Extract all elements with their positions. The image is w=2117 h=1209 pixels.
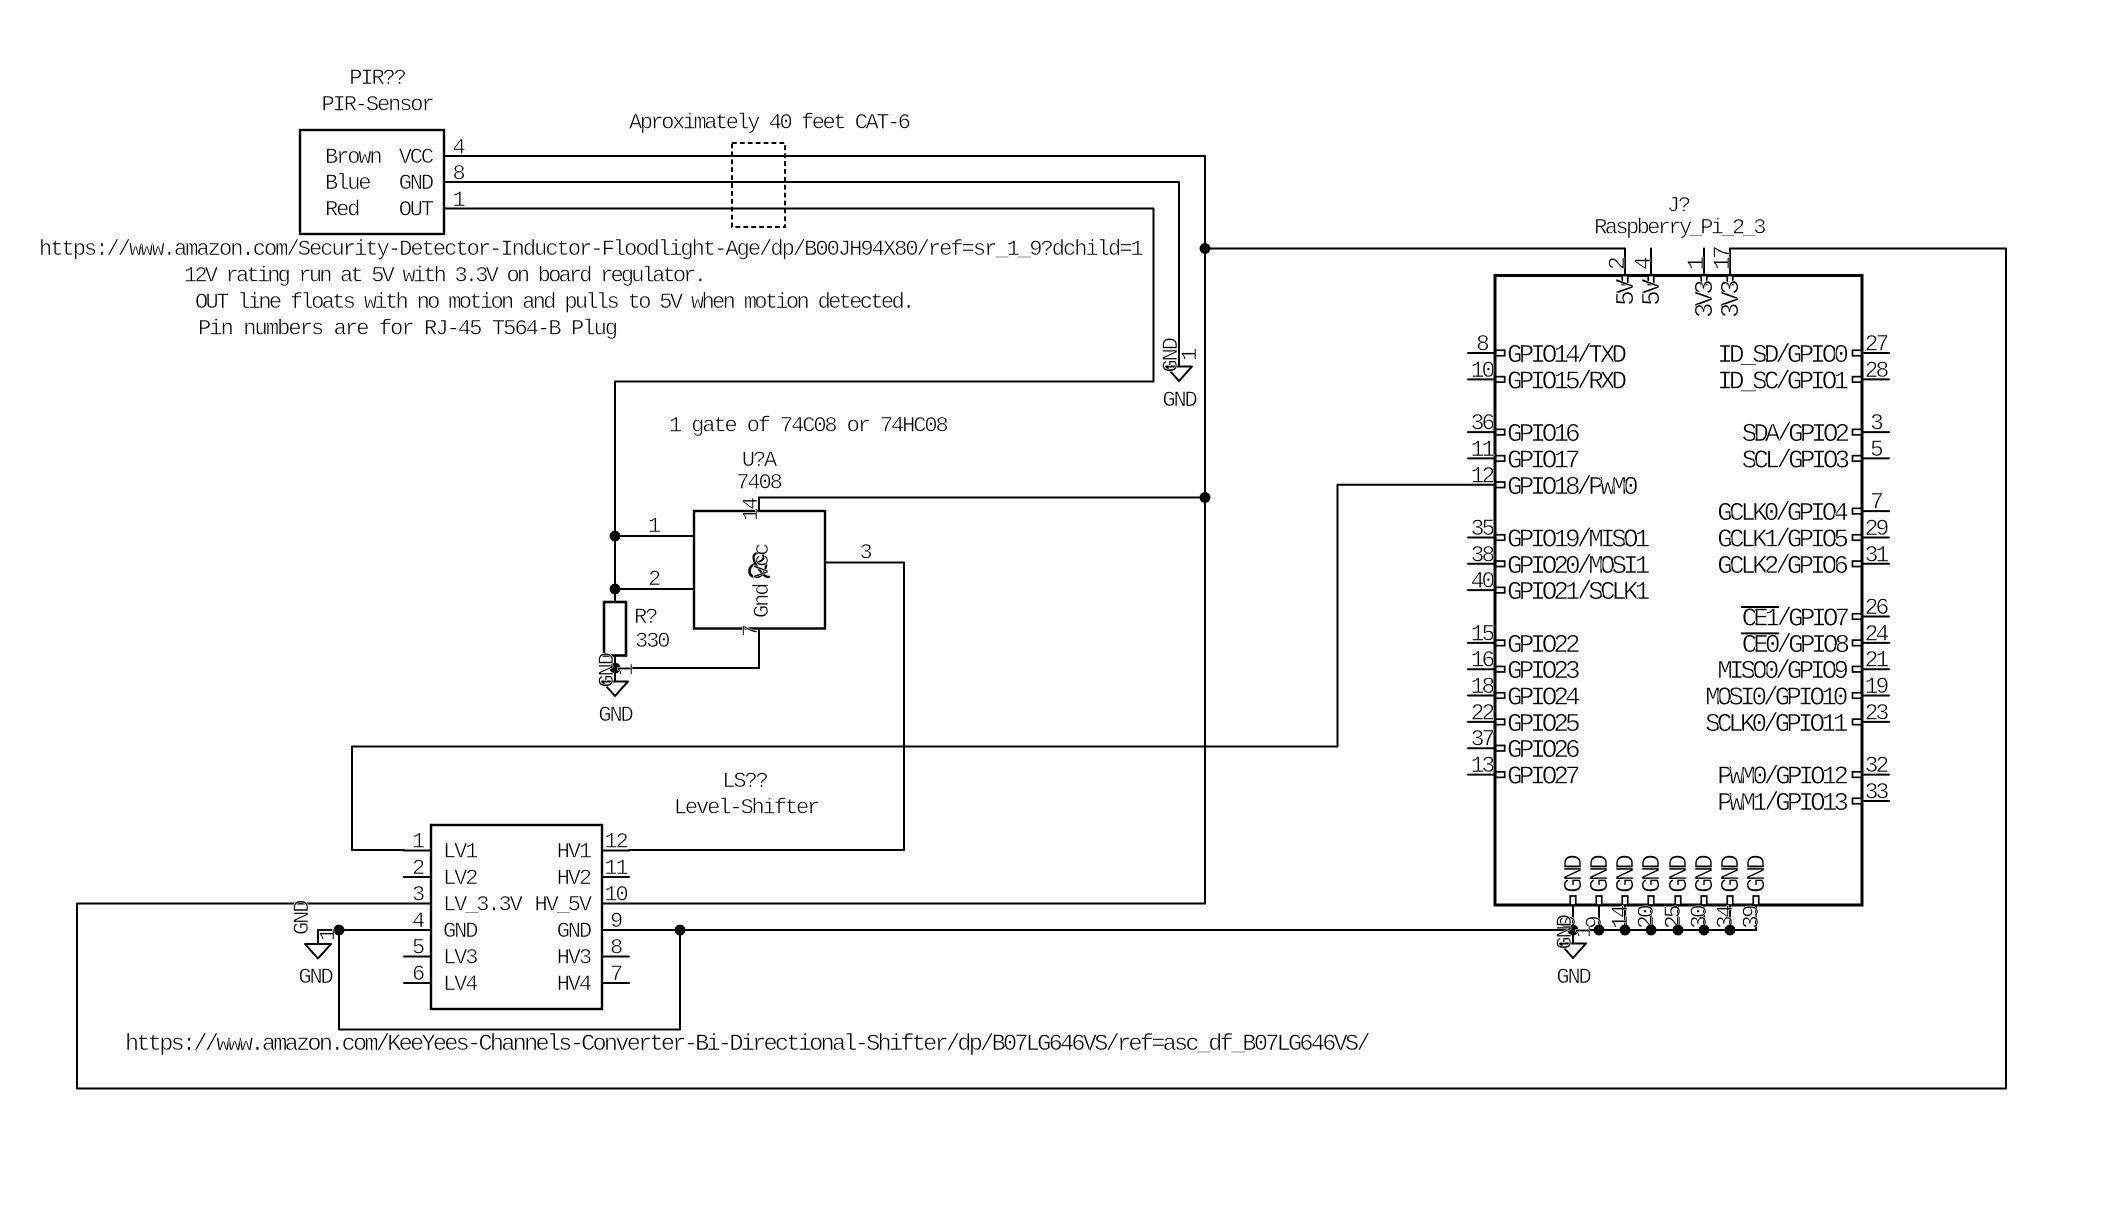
gate title note: [669, 414, 947, 439]
Pi pin 27 square: [1853, 350, 1862, 356]
PIR pin number 1: [452, 188, 465, 213]
svg-text:19: 19: [1865, 674, 1889, 700]
wire LV1 to Pi GPIO18/PWM0: [352, 485, 1468, 850]
Pi pin 37 GPIO26 stub: [1468, 747, 1495, 749]
svg-text:VCC: VCC: [399, 145, 434, 170]
Pi bottom pin 14 square: [1622, 896, 1628, 905]
Pi pin name CE1/GPIO7: [1742, 604, 1849, 634]
svg-text:25: 25: [1661, 905, 1687, 929]
Pi pin 33 square: [1853, 798, 1862, 804]
junction 5V at gate Vcc branch: [1200, 492, 1211, 503]
Pi pin name GPIO26: [1507, 735, 1579, 765]
Pi pin 38 GPIO20/MOSI1 stub: [1468, 563, 1495, 565]
svg-text:6: 6: [412, 962, 424, 987]
Pi pin name GPIO20/MOSI1: [1507, 551, 1650, 581]
Pi top pin number 17: [1710, 247, 1736, 270]
Pi top pin 1 3V3 stub: [1703, 249, 1705, 276]
svg-text:PWM1/GPIO13: PWM1/GPIO13: [1717, 788, 1847, 818]
Pi top pin 17 3V3 stub: [1729, 249, 1731, 276]
Pi pin number 5: [1870, 437, 1883, 463]
Pi pin 28 square: [1853, 377, 1862, 383]
Pi pin name ID_SD/GPIO0: [1717, 340, 1847, 370]
svg-text:PIR-Sensor: PIR-Sensor: [321, 93, 433, 118]
junction resistor foot: [610, 663, 621, 674]
Pi bottom pin name GND (6): [1559, 855, 1589, 893]
Pi pin 15 GPIO22 stub: [1468, 642, 1495, 644]
svg-text:10: 10: [1471, 358, 1495, 384]
Pi pin name GCLK0/GPIO4: [1717, 498, 1848, 528]
Pi pin 28 ID_SC/GPIO1 stub: [1862, 378, 1889, 380]
Pi bottom pin number 20: [1634, 905, 1660, 929]
svg-text:13: 13: [1471, 753, 1495, 779]
PIR pin Red OUT label: [325, 198, 434, 223]
svg-text:LV3: LV3: [443, 946, 477, 971]
Pi pin number 24: [1865, 621, 1889, 647]
Pi pin number 22: [1471, 700, 1495, 726]
svg-text:17: 17: [1710, 247, 1736, 270]
junction GND rail pin 14: [1620, 925, 1631, 936]
svg-text:12: 12: [604, 830, 627, 855]
ground GND (level-shifter): [290, 900, 341, 990]
svg-text:22: 22: [1471, 700, 1495, 726]
svg-text:Blue: Blue: [325, 171, 370, 196]
PIR pin Blue GND label: [325, 171, 434, 196]
Pi pin number 37: [1471, 727, 1494, 753]
gate pin number 1: [648, 514, 661, 539]
Pi pin 21 square: [1853, 666, 1862, 672]
LS pin 11 HV2 stub: [602, 876, 629, 878]
note pin numbers RJ-45: [198, 317, 617, 342]
Pi pin number 26: [1865, 595, 1889, 621]
and-gate U?A body: [694, 511, 825, 629]
Pi pin 19 MOSI0/GPIO10 stub: [1862, 695, 1889, 697]
svg-text:Level-Shifter: Level-Shifter: [674, 796, 819, 821]
Pi pin number 27: [1865, 332, 1888, 358]
Pi pin number 23: [1865, 700, 1889, 726]
Pi top pin name 3V3: [1690, 281, 1720, 318]
Pi pin 12 GPIO18/PWM0 stub: [1468, 484, 1495, 486]
svg-text:39: 39: [1739, 905, 1765, 929]
Pi pin 22 GPIO25 stub: [1468, 721, 1495, 723]
svg-text:3V3: 3V3: [1716, 281, 1746, 318]
svg-text:PIR??: PIR??: [349, 66, 405, 91]
Pi pin 5 SCL/GPIO3 stub: [1862, 457, 1889, 459]
connector J? reference: [1667, 194, 1690, 219]
Pi pin name GPIO27: [1507, 762, 1579, 792]
gate pin 14 Vcc stub: [758, 498, 760, 512]
svg-text:34: 34: [1713, 905, 1739, 929]
svg-text:330: 330: [635, 629, 669, 654]
Pi pin 13 GPIO27 stub: [1468, 774, 1495, 776]
svg-text:36: 36: [1471, 411, 1495, 437]
Pi pin 18 GPIO24 stub: [1468, 695, 1495, 697]
Pi bottom pin 6 square: [1570, 896, 1576, 905]
PIR pin number 4: [452, 136, 465, 161]
Pi bottom pin name GND (34): [1716, 855, 1746, 893]
svg-text:1: 1: [412, 830, 425, 855]
level-shifter value Level-Shifter: [674, 796, 819, 821]
svg-text:4: 4: [412, 909, 425, 934]
Pi top pin 17 square: [1727, 276, 1733, 285]
Pi pin name PWM0/GPIO12: [1717, 762, 1847, 792]
CAT-6 dashed box: [732, 143, 785, 227]
PIR sensor body PIR??: [300, 130, 444, 234]
Pi pin name GCLK2/GPIO6: [1717, 551, 1847, 581]
svg-text:11: 11: [1471, 437, 1495, 463]
svg-text:Raspberry_Pi_2_3: Raspberry_Pi_2_3: [1594, 216, 1765, 241]
Pi bottom pin number 25: [1661, 905, 1687, 929]
Pi pin 37 square: [1496, 745, 1505, 751]
Pi bottom pin 25 GND stub: [1677, 905, 1679, 930]
Pi pin 7 square: [1853, 508, 1862, 513]
gate value 7408: [736, 471, 781, 496]
LS pin name HV_5V: [535, 893, 593, 918]
Pi pin name GPIO17: [1507, 445, 1579, 475]
gate pin number 14: [739, 497, 764, 521]
Pi pin name SCLK0/GPIO11: [1705, 709, 1848, 739]
Pi pin 10 GPIO15/RXD stub: [1468, 378, 1495, 380]
Pi pin 23 square: [1853, 719, 1862, 725]
junction GND rail pin 20: [1646, 925, 1657, 936]
Pi top pin number 1: [1684, 257, 1710, 270]
svg-text:R?: R?: [634, 605, 657, 630]
LS pin name LV4: [443, 972, 478, 997]
svg-text:8: 8: [610, 936, 622, 961]
note URL amazon PIR sensor: [39, 237, 1143, 262]
Pi pin 29 square: [1853, 535, 1862, 541]
Pi bottom pin number 6: [1556, 916, 1582, 929]
LS pin 1 LV1 stub: [404, 850, 431, 852]
Pi top pin 1 square: [1701, 276, 1707, 285]
Pi bottom pin name GND (9): [1585, 855, 1615, 893]
LS pin 10 HV_5V stub: [602, 903, 629, 905]
LS pin 3 LV_3.3V stub: [404, 903, 431, 905]
Pi pin number 11: [1471, 437, 1495, 463]
Pi pin 16 GPIO23 stub: [1468, 668, 1495, 670]
junction GND rail pin 25: [1673, 925, 1684, 936]
Pi pin name CE0/GPIO8: [1742, 630, 1849, 660]
junction GND rail pin 30: [1699, 925, 1710, 936]
svg-text:GPIO18/PWM0: GPIO18/PWM0: [1507, 472, 1637, 502]
note OUT line floats: [195, 290, 913, 315]
svg-text:20: 20: [1634, 905, 1660, 929]
Pi pin number 13: [1471, 753, 1495, 779]
junction 5V at Pi branch: [1200, 243, 1211, 254]
level-shifter LS?? body: [431, 825, 602, 1009]
svg-text:14: 14: [739, 497, 764, 521]
LS pin name HV2: [557, 866, 591, 891]
Pi pin 32 PWM0/GPIO12 stub: [1862, 774, 1889, 776]
svg-text:GND: GND: [1556, 965, 1591, 990]
Pi pin 24 square: [1853, 640, 1862, 646]
svg-text:18: 18: [1471, 674, 1495, 700]
Pi pin 10 square: [1496, 377, 1505, 383]
resistor bottom pin: [614, 656, 616, 669]
Pi pin number 33: [1865, 780, 1889, 806]
Pi top pin 2 5V stub: [1624, 249, 1626, 276]
LS pin 7 number: [610, 962, 622, 987]
Pi pin 36 square: [1496, 429, 1505, 435]
Pi top pin name 5V: [1637, 278, 1667, 306]
svg-text:24: 24: [1865, 621, 1889, 647]
Pi top pin 4 5V stub: [1650, 249, 1652, 276]
Pi pin 40 square: [1496, 587, 1505, 593]
note URL amazon level shifter: [125, 1031, 1369, 1058]
Pi pin name ID_SC/GPIO1: [1717, 366, 1848, 396]
svg-text:HV1: HV1: [557, 840, 592, 865]
connector value Raspberry_Pi_2_3: [1594, 216, 1765, 241]
svg-text:1: 1: [614, 663, 639, 676]
Pi bottom pin 34 GND stub: [1729, 905, 1731, 930]
LS pin 12 HV1 stub: [602, 850, 629, 852]
svg-text:GND: GND: [598, 703, 633, 728]
LS pin 1 number: [412, 830, 425, 855]
Pi pin 11 square: [1496, 456, 1505, 462]
LS pin 12 number: [604, 830, 627, 855]
svg-text:ID_SC/GPIO1: ID_SC/GPIO1: [1717, 366, 1848, 396]
svg-text:https://www.amazon.com/Securit: https://www.amazon.com/Security-Detector…: [39, 237, 1143, 262]
junction GND rail pin 6: [1568, 925, 1579, 936]
LS pin 9 GND stub: [602, 929, 629, 931]
Pi pin name GPIO25: [1507, 709, 1579, 739]
Pi pin number 10: [1471, 358, 1495, 384]
svg-text:40: 40: [1471, 569, 1495, 595]
svg-text:1 gate of 74C08 or 74HC08: 1 gate of 74C08 or 74HC08: [669, 414, 947, 439]
LS pin name HV3: [557, 946, 591, 971]
svg-text:1: 1: [1572, 925, 1597, 938]
svg-text:SCLK0/GPIO11: SCLK0/GPIO11: [1705, 709, 1848, 739]
LS pin 3 number: [412, 883, 424, 908]
Pi pin number 38: [1471, 542, 1495, 568]
Pi pin 24 CE0/GPIO8 stub: [1862, 642, 1889, 644]
LS pin name HV1: [557, 840, 592, 865]
svg-text:3: 3: [859, 541, 871, 566]
Pi top pin name 3V3: [1716, 281, 1746, 318]
resistor R? body: [604, 602, 626, 656]
svg-text:GPIO15/RXD: GPIO15/RXD: [1507, 366, 1626, 396]
svg-text:HV2: HV2: [557, 866, 591, 891]
Pi top pin 4 square: [1648, 276, 1654, 285]
Pi pin name GPIO18/PWM0: [1507, 472, 1637, 502]
Pi pin 3 SDA/GPIO2 stub: [1862, 431, 1889, 433]
Pi bottom pin 20 square: [1648, 896, 1654, 905]
Pi pin 36 GPIO16 stub: [1468, 431, 1495, 433]
svg-text:GND: GND: [1637, 855, 1667, 893]
Pi pin number 28: [1865, 358, 1889, 384]
Pi pin 8 GPIO14/TXD stub: [1468, 352, 1495, 354]
Pi bottom pin 9 square: [1596, 896, 1602, 905]
Pi pin number 32: [1865, 753, 1889, 779]
Pi pin 32 square: [1853, 772, 1862, 778]
Pi pin number 21: [1865, 648, 1889, 674]
gate pin number 7: [739, 625, 764, 637]
LS pin name GND: [443, 919, 478, 944]
Pi bottom pin 30 square: [1701, 896, 1707, 905]
junction GND rail pin 9: [1594, 925, 1605, 936]
Pi top pin name 5V: [1611, 278, 1641, 306]
svg-text:GND: GND: [1742, 855, 1772, 893]
gate pin 7 Gnd stub and wire to resistor foot: [615, 629, 759, 668]
svg-text:14: 14: [1608, 905, 1634, 929]
svg-text:16: 16: [1471, 648, 1495, 674]
Pi bottom pin number 39: [1739, 905, 1765, 929]
LS pin name HV4: [557, 972, 592, 997]
junction gate pin 1: [610, 531, 621, 542]
and-gate symbol &amp;: [747, 546, 771, 591]
Pi bottom pin 6 GND stub: [1572, 905, 1574, 930]
svg-text:U?A: U?A: [742, 448, 778, 473]
svg-text:7408: 7408: [736, 471, 781, 496]
Pi pin 7 GCLK0/GPIO4 stub: [1862, 510, 1889, 512]
Pi pin name SCL/GPIO3: [1742, 445, 1849, 475]
LS pin name LV2: [443, 866, 477, 891]
Pi pin 31 square: [1853, 561, 1862, 567]
svg-text:LV4: LV4: [443, 972, 478, 997]
svg-text:GND: GND: [290, 900, 315, 935]
wire GND net: PIR pin 8 down to GND symbol: [444, 182, 1179, 366]
PIR pin number 8: [452, 162, 464, 187]
PIR pin Brown VCC label: [325, 145, 434, 170]
svg-text:GCLK2/GPIO6: GCLK2/GPIO6: [1717, 551, 1847, 581]
LS pin 5 number: [412, 936, 424, 961]
Pi bottom pin 30 GND stub: [1703, 905, 1705, 930]
PIR sensor reference label PIR??: [349, 66, 405, 91]
Pi pin number 35: [1471, 516, 1495, 542]
Pi bottom pin 25 square: [1675, 896, 1681, 905]
LS pin 7 HV4 stub: [602, 982, 629, 984]
Pi pin 13 square: [1496, 772, 1505, 778]
LS pin 8 HV3 stub: [602, 956, 629, 958]
LS pin 9 number: [610, 909, 622, 934]
svg-text:HV_5V: HV_5V: [535, 893, 593, 918]
LS pin 11 number: [604, 856, 628, 881]
Pi pin number 7: [1870, 490, 1882, 516]
Pi pin name MISO0/GPIO9: [1717, 656, 1847, 686]
svg-text:SCL/GPIO3: SCL/GPIO3: [1742, 445, 1849, 475]
svg-text:Gnd: Gnd: [750, 584, 775, 618]
connector J? Raspberry_Pi_2_3 body: [1495, 276, 1862, 906]
svg-text:11: 11: [604, 856, 628, 881]
svg-text:15: 15: [1471, 621, 1495, 647]
Pi pin number 8: [1476, 332, 1489, 358]
LS pin 8 number: [610, 936, 622, 961]
LS pin 10 number: [604, 883, 627, 908]
PIR sensor value label PIR-Sensor: [321, 93, 433, 118]
Pi pin 15 square: [1496, 640, 1505, 646]
Pi pin 8 square: [1496, 350, 1505, 356]
Pi bottom pin name GND (20): [1637, 855, 1667, 893]
svg-text:9: 9: [610, 909, 622, 934]
Pi bottom pin number 30: [1687, 905, 1713, 929]
svg-text:Aproximately 40 feet CAT-6: Aproximately 40 feet CAT-6: [629, 111, 910, 136]
level-shifter reference LS??: [722, 769, 767, 794]
resistor R? reference: [634, 605, 657, 630]
svg-text:Pin numbers are for RJ-45 T564: Pin numbers are for RJ-45 T564-B Plug: [198, 317, 617, 342]
LS pin 4 GND stub: [404, 929, 431, 931]
Pi pin name GPIO16: [1507, 419, 1579, 449]
resistor value 330: [635, 629, 669, 654]
svg-text:GPIO21/SCLK1: GPIO21/SCLK1: [1507, 577, 1650, 607]
LS pin 6 number: [412, 962, 424, 987]
svg-text:1: 1: [1178, 348, 1203, 361]
svg-text:3: 3: [412, 883, 424, 908]
Pi pin 35 square: [1496, 535, 1505, 541]
svg-text:GND: GND: [557, 919, 592, 944]
svg-text:OUT: OUT: [399, 198, 434, 223]
svg-text:1: 1: [648, 514, 661, 539]
Pi pin 31 GCLK2/GPIO6 stub: [1862, 563, 1889, 565]
junction GND rail pin 34: [1725, 925, 1736, 936]
svg-text:2: 2: [648, 567, 660, 592]
ground GND (Pi header): [1553, 914, 1597, 990]
svg-text:37: 37: [1471, 727, 1494, 753]
Pi pin 16 square: [1496, 666, 1505, 672]
Pi pin number 12: [1471, 463, 1495, 489]
Pi pin name GPIO14/TXD: [1507, 340, 1626, 370]
Pi pin 19 square: [1853, 693, 1862, 699]
Pi pin name GPIO21/SCLK1: [1507, 577, 1650, 607]
svg-text:10: 10: [604, 883, 627, 908]
LS pin 2 number: [412, 856, 424, 881]
Pi bottom pin number 14: [1608, 905, 1634, 929]
svg-text:HV3: HV3: [557, 946, 591, 971]
LS pin name LV_3.3V: [443, 893, 524, 918]
Pi pin name GPIO24: [1507, 683, 1580, 713]
Pi pin name GPIO22: [1507, 630, 1579, 660]
Pi pin name GPIO15/RXD: [1507, 366, 1626, 396]
svg-text:7: 7: [739, 625, 764, 637]
svg-text:38: 38: [1471, 542, 1495, 568]
gate pin 2 wire: [615, 588, 694, 590]
Pi pin number 3: [1870, 411, 1883, 437]
Pi pin name SDA/GPIO2: [1742, 419, 1849, 449]
svg-text:7: 7: [1870, 490, 1882, 516]
wire 5V to gate Vcc pin 14: [759, 497, 1205, 499]
Pi pin number 18: [1471, 674, 1495, 700]
junction gate pin 2: [610, 584, 621, 595]
svg-text:OUT line floats with no motion: OUT line floats with no motion and pulls…: [195, 290, 913, 315]
Pi pin number 29: [1865, 516, 1889, 542]
svg-text:32: 32: [1865, 753, 1889, 779]
Pi pin 22 square: [1496, 719, 1505, 725]
Pi bottom pin name GND (39): [1742, 855, 1772, 893]
Pi pin 5 square: [1853, 456, 1862, 462]
Pi bottom pin 39 square: [1753, 896, 1759, 905]
LS pin 2 LV2 stub: [404, 876, 431, 878]
svg-text:LS??: LS??: [722, 769, 767, 794]
wire 5V to Pi pin 2: [1205, 248, 1625, 250]
wire 3V3 net: Pi pin 17 right-down-left-up to LS LV_3.3V: [77, 249, 2006, 1089]
Pi pin name PWM1/GPIO13: [1717, 788, 1847, 818]
Pi pin number 31: [1865, 542, 1889, 568]
Pi pin name MOSI0/GPIO10: [1705, 683, 1847, 713]
svg-text:GND: GND: [443, 919, 478, 944]
Pi bottom pin 34 square: [1727, 896, 1733, 905]
ground GND (resistor / gate): [595, 652, 639, 728]
svg-text:26: 26: [1865, 595, 1889, 621]
Pi pin number 40: [1471, 569, 1495, 595]
Pi pin name GPIO19/MISO1: [1507, 525, 1650, 555]
wire LS GND loop pin 4 to pin 9: [339, 930, 680, 1030]
svg-text:21: 21: [1865, 648, 1889, 674]
Pi bottom pin 9 GND stub: [1598, 905, 1600, 930]
svg-text:28: 28: [1865, 358, 1889, 384]
Pi top pin number 2: [1605, 257, 1631, 270]
LS pin name GND: [557, 919, 592, 944]
wire 5V to level-shifter HV_5V pin 10: [629, 903, 1205, 905]
svg-text:30: 30: [1687, 905, 1713, 929]
svg-text:GPIO27: GPIO27: [1507, 762, 1579, 792]
